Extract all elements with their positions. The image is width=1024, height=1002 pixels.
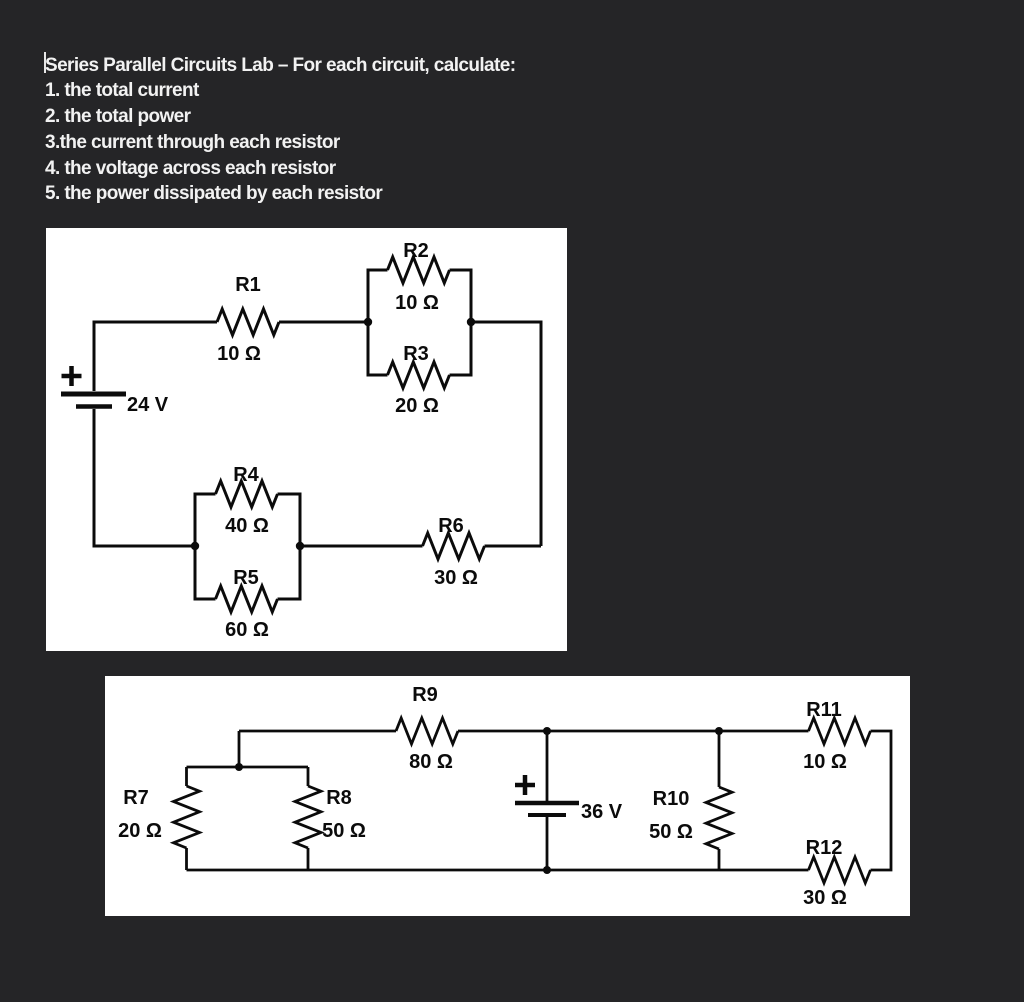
wire: battery top lead — [546, 731, 549, 801]
wire: top rail left corner down to node E — [238, 731, 241, 767]
svg-text:10 Ω: 10 Ω — [217, 343, 261, 365]
wire: lower box left bottom branch — [195, 546, 216, 599]
wire: R11 to right edge down to R12 — [871, 731, 892, 870]
svg-text:R2: R2 — [403, 240, 429, 262]
svg-text:R3: R3 — [403, 343, 429, 365]
svg-text:50 Ω: 50 Ω — [649, 821, 693, 843]
svg-text:R10: R10 — [653, 788, 690, 810]
wire: top rail from corner to R9 — [239, 730, 396, 733]
battery V1 negative plate — [76, 404, 112, 409]
resistor R12 — [809, 857, 871, 883]
wire: R8 bottom lead — [307, 848, 310, 870]
wire: R8 top lead — [307, 767, 310, 786]
node C (left junction of R4/R5) — [191, 542, 199, 550]
svg-text:R12: R12 — [806, 837, 843, 859]
wire: R9 to node F — [458, 730, 547, 733]
svg-text:R7: R7 — [123, 787, 149, 809]
node H (R10 top) — [715, 727, 723, 735]
resistor R1 — [217, 309, 279, 335]
svg-text:30 Ω: 30 Ω — [803, 887, 847, 909]
wire: R6 to bottom right corner — [485, 545, 542, 548]
plus sign — [62, 366, 82, 386]
svg-text:20 Ω: 20 Ω — [118, 820, 162, 842]
svg-text:80 Ω: 80 Ω — [409, 751, 453, 773]
wire: R7 top lead — [185, 767, 188, 786]
wire: top-left from battery corner to R1 — [94, 322, 217, 391]
resistor R4 — [216, 481, 278, 507]
wire: top rail node H to R11 — [719, 730, 809, 733]
resistor R8 — [295, 786, 321, 848]
svg-text:60 Ω: 60 Ω — [225, 619, 269, 641]
wire: top rail battery to node H — [547, 730, 719, 733]
svg-text:40 Ω: 40 Ω — [225, 515, 269, 537]
battery V1 positive plate — [61, 392, 126, 397]
wire: R7/R8 top interconnect — [187, 766, 309, 769]
wire: bottom rail — [187, 869, 809, 872]
node A (left junction of R2/R3) — [364, 318, 372, 326]
svg-text:20 Ω: 20 Ω — [395, 395, 439, 417]
wire: lower box left top branch — [195, 494, 216, 546]
resistor R11 — [809, 718, 871, 744]
wire: R5 to box right — [278, 546, 301, 599]
node E (junction R7/R8 top) — [235, 763, 243, 771]
resistor R9 — [396, 718, 458, 744]
resistor R2 — [388, 257, 450, 283]
plus sign — [515, 775, 535, 795]
resistor R5 — [216, 586, 278, 612]
resistor R6 — [423, 533, 485, 559]
wire: R10 top lead — [718, 731, 721, 787]
svg-text:R9: R9 — [412, 684, 438, 706]
node G (battery bottom) — [543, 866, 551, 874]
battery V2 negative plate — [528, 813, 566, 817]
wire: box left lower branch to R3 — [368, 322, 388, 375]
wire: battery negative down to bottom rail and to node C — [94, 409, 195, 546]
svg-text:50 Ω: 50 Ω — [322, 820, 366, 842]
wire: node B to right edge and down — [471, 322, 541, 546]
resistor R10 — [706, 787, 732, 849]
svg-text:R8: R8 — [326, 787, 352, 809]
svg-text:R4: R4 — [233, 464, 259, 486]
node D (right junction of R4/R5) — [296, 542, 304, 550]
wire: R2 to box right side — [450, 270, 472, 322]
battery V2 positive plate — [515, 801, 579, 806]
wire: parallel box left branch — [368, 270, 388, 375]
resistor R7 — [174, 786, 200, 848]
svg-text:R6: R6 — [438, 515, 464, 537]
wire: R10 bottom lead — [718, 849, 721, 870]
resistor R3 — [388, 362, 450, 388]
wire: battery bottom lead — [546, 817, 549, 870]
wire: node D to R6 — [300, 545, 423, 548]
wire: R7 bottom lead — [185, 848, 188, 870]
circuit panel 1 — [46, 228, 567, 651]
svg-text:R5: R5 — [233, 567, 259, 589]
wire: R1 to node A — [279, 321, 368, 324]
node F (battery top) — [543, 727, 551, 735]
svg-text:10 Ω: 10 Ω — [803, 751, 847, 773]
circuit panel 2 — [105, 676, 910, 916]
svg-text:30 Ω: 30 Ω — [434, 567, 478, 589]
svg-text:10 Ω: 10 Ω — [395, 292, 439, 314]
svg-text:36 V: 36 V — [581, 801, 623, 823]
header instructions text — [45, 53, 515, 208]
node B (right junction of R2/R3) — [467, 318, 475, 326]
text caret — [44, 52, 46, 73]
wire: R4 to box right — [278, 494, 301, 546]
svg-text:24 V: 24 V — [127, 394, 169, 416]
svg-text:R1: R1 — [235, 274, 261, 296]
wire: R3 to box right side — [450, 322, 472, 375]
svg-text:R11: R11 — [806, 699, 842, 721]
